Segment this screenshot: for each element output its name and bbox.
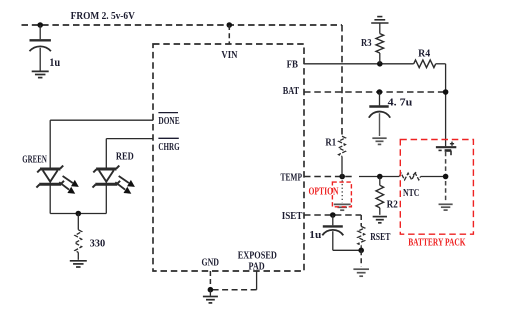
- wire BAT net (dashed): [304, 91, 446, 93]
- wire RSET to ground (dashed): [360, 250, 362, 266]
- wire TEMP stub (dashed): [304, 176, 353, 178]
- battery BT1 minus sign: [439, 149, 442, 151]
- resistor R4: [414, 60, 446, 68]
- capacitor C2 4.7u: [369, 92, 390, 136]
- wire NTC to battery: [421, 176, 446, 178]
- svg-text:R3: R3: [361, 38, 372, 49]
- resistor 330: [75, 230, 82, 253]
- svg-text:ISET: ISET: [282, 211, 303, 222]
- svg-text:1u: 1u: [49, 57, 61, 69]
- node junction LEDs/R330: [76, 211, 82, 217]
- wire VIN stub: [228, 25, 230, 44]
- power symbol above R3 (inverted ground): [371, 17, 388, 34]
- svg-text:FROM 2. 5v-6V: FROM 2. 5v-6V: [71, 10, 135, 22]
- label 4.7u: [388, 96, 413, 108]
- svg-text:PAD: PAD: [249, 261, 266, 272]
- pin GND label: [202, 257, 220, 268]
- ground (GND pin): [203, 290, 218, 303]
- node junction BAT/C2: [377, 89, 383, 95]
- ground (input cap): [32, 71, 49, 77]
- svg-text:330: 330: [90, 237, 106, 249]
- label 330: [90, 237, 106, 249]
- svg-text:1u: 1u: [309, 229, 321, 241]
- node junction TEMP/R1: [339, 174, 345, 180]
- pin TEMP label: [281, 172, 303, 183]
- svg-text:VIN: VIN: [221, 50, 237, 61]
- label R4: [418, 48, 431, 59]
- ground (OPTION): [334, 204, 351, 210]
- ground (battery pack): [439, 204, 453, 210]
- resistor R1 (optional): [339, 136, 346, 176]
- pin VIN label: [221, 50, 237, 61]
- wire EXPOSED PAD stub: [210, 271, 256, 290]
- op-amp U1 charger IC body (dashed box): [153, 44, 304, 271]
- node junction GND/EXPOSED PAD: [208, 287, 214, 293]
- wire LED cathode join: [50, 213, 106, 215]
- wire OPTION dotted: [341, 177, 343, 203]
- wire rail to R1 (dashed): [341, 25, 343, 136]
- svg-text:OPTION: OPTION: [309, 186, 340, 197]
- wire R330 to ground: [77, 252, 79, 259]
- svg-text:FB: FB: [287, 60, 298, 71]
- resistor R3: [376, 34, 384, 64]
- pin ISET label: [282, 211, 303, 222]
- node junction NTC/battery: [443, 174, 449, 180]
- battery BT1 plus plate: [436, 146, 456, 148]
- LED D1 GREEN: [36, 166, 78, 214]
- wire DONE to green LED: [50, 120, 153, 167]
- svg-text:BATTERY PACK: BATTERY PACK: [408, 238, 466, 249]
- label BATTERY PACK: [408, 238, 466, 249]
- svg-text:GREEN: GREEN: [22, 155, 47, 166]
- svg-text:R4: R4: [418, 48, 431, 59]
- label R2: [387, 200, 398, 211]
- pin EXPOSED PAD label: [238, 251, 277, 273]
- capacitor C3 1u: [322, 215, 343, 250]
- wire ISET net (dashed): [304, 215, 361, 226]
- label GREEN: [22, 155, 47, 166]
- svg-text:NTC: NTC: [403, 188, 419, 199]
- svg-text:TEMP: TEMP: [281, 172, 303, 183]
- svg-text:RED: RED: [116, 151, 134, 162]
- label OPTION: [309, 186, 340, 197]
- wire TEMP net: [359, 176, 399, 178]
- wire CHRG to red LED: [106, 139, 153, 168]
- label RED: [116, 151, 134, 162]
- pin DONE overline: [158, 112, 178, 114]
- svg-text:EXPOSED: EXPOSED: [238, 251, 277, 262]
- node junction C1/rail: [37, 22, 43, 28]
- box OPTION (red dashed): [332, 182, 351, 207]
- pin DONE label: [158, 116, 179, 127]
- wire battery internal (dashed): [445, 152, 447, 203]
- capacitor C-in 1u: [30, 25, 51, 71]
- label R3: [361, 38, 372, 49]
- svg-text:GND: GND: [202, 257, 220, 268]
- node junction ISET/C3: [330, 212, 336, 218]
- svg-text:R2: R2: [387, 200, 398, 211]
- wire GND stub (dashed): [209, 271, 211, 290]
- ground (C2): [372, 138, 386, 144]
- ground (R2): [373, 217, 387, 223]
- label FROM 2.5v-6V: [71, 10, 135, 22]
- label RSET: [370, 232, 390, 243]
- svg-text:4. 7u: 4. 7u: [388, 96, 413, 108]
- pin CHRG label: [158, 142, 179, 153]
- wire R4 to battery: [445, 64, 447, 146]
- battery BT1 plus sign: [450, 142, 454, 146]
- label 1u (ISET cap): [309, 229, 321, 241]
- svg-text:DONE: DONE: [158, 116, 179, 127]
- box BATTERY PACK (red dashed): [400, 140, 473, 235]
- node junction TEMP/R2: [377, 174, 383, 180]
- ground (R330): [70, 261, 87, 267]
- resistor R2: [376, 177, 384, 215]
- svg-text:CHRG: CHRG: [158, 142, 179, 153]
- label NTC: [403, 188, 419, 199]
- node junction RSET/C3/gnd: [358, 248, 364, 254]
- node junction R3/FB: [377, 61, 383, 67]
- battery BT1 minus plate: [445, 151, 452, 156]
- node junction BAT/R4: [443, 89, 449, 95]
- svg-text:R1: R1: [325, 138, 336, 149]
- ground (RSET): [353, 269, 369, 276]
- LED D2 RED: [93, 166, 135, 214]
- svg-text:RSET: RSET: [370, 232, 390, 243]
- wire C3 to RSET bottom: [333, 249, 361, 251]
- wire top power rail FROM 2.5v-6V: [22, 24, 343, 26]
- node junction VIN/rail: [227, 22, 233, 28]
- resistor RSET: [358, 226, 365, 250]
- svg-text:BAT: BAT: [283, 86, 299, 97]
- wire to R 330: [77, 214, 79, 230]
- wire FB net: [304, 63, 414, 65]
- pin FB label: [287, 60, 298, 71]
- label 1u (input cap): [49, 57, 61, 69]
- thermistor NTC: [399, 172, 420, 180]
- label R1: [325, 138, 336, 149]
- pin CHRG overline: [158, 137, 178, 139]
- pin BAT label: [283, 86, 299, 97]
